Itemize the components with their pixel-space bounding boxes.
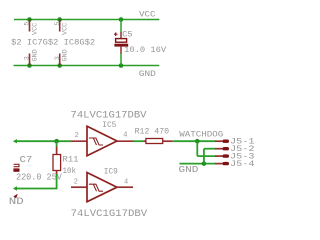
- svg-text:C7: C7: [20, 154, 33, 165]
- svg-text:3: 3: [54, 56, 61, 60]
- svg-text:GND: GND: [139, 70, 156, 79]
- svg-text:GND: GND: [179, 165, 199, 175]
- svg-text:2: 2: [74, 178, 78, 186]
- junction on GND at C5: [119, 63, 124, 68]
- wire R11 to bottom net: [14, 174, 57, 189]
- svg-text:3: 3: [24, 56, 31, 60]
- wire junction to row3: [196, 141, 198, 156]
- svg-text:2: 2: [75, 132, 79, 140]
- svg-text:WATCHDOG: WATCHDOG: [179, 130, 223, 140]
- connector pin J5-1: [215, 138, 255, 147]
- svg-text:5: 5: [24, 22, 31, 26]
- resistor R11 10k: [53, 141, 79, 176]
- connector pin J5-2: [215, 145, 255, 154]
- svg-text:J5-4: J5-4: [230, 160, 255, 169]
- net WATCHDOG wire: [173, 140, 216, 142]
- junction on GND at IC7 pin: [27, 63, 32, 68]
- svg-text:4: 4: [124, 179, 128, 187]
- IC8 power pin VCC (pin 5): [54, 20, 70, 36]
- svg-text:IC9: IC9: [104, 168, 118, 177]
- wire row4 junction to row2: [203, 149, 205, 164]
- net GND rail: [14, 65, 160, 67]
- IC7 power pin GND (pin 3): [24, 49, 40, 65]
- wire VCC to C5: [120, 20, 122, 33]
- connector pin J5-4: [215, 160, 255, 169]
- wire end arrow: [13, 139, 17, 143]
- wire end arrow bottom: [13, 186, 17, 190]
- IC8 power pin GND (pin 3): [54, 49, 70, 65]
- IC5 pin 4: [117, 140, 134, 142]
- svg-text:10.0 16V: 10.0 16V: [124, 46, 166, 55]
- svg-text:220.0 25V: 220.0 25V: [16, 172, 62, 182]
- svg-text:VCC: VCC: [62, 23, 70, 35]
- junction GND row4: [202, 161, 207, 166]
- svg-text:R11: R11: [63, 155, 79, 164]
- ground symbol bottom left: [13, 194, 17, 199]
- junction WATCHDOG: [195, 139, 200, 144]
- svg-text:C5: C5: [122, 31, 133, 40]
- op-amp U IC5 pin 2: [71, 140, 87, 142]
- wire row3: [197, 155, 215, 157]
- svg-text:R12 470: R12 470: [135, 127, 170, 136]
- svg-text:74LVC1G17DBV: 74LVC1G17DBV: [71, 109, 147, 120]
- wire row2: [204, 148, 216, 150]
- svg-text:GND: GND: [62, 49, 70, 61]
- svg-text:5: 5: [54, 22, 61, 26]
- junction on VCC at C5: [119, 17, 124, 22]
- junction on VCC at IC7 pin: [27, 17, 32, 22]
- svg-text:GND: GND: [31, 49, 39, 61]
- svg-text:10k: 10k: [63, 166, 77, 176]
- net GND wire row4: [180, 163, 216, 165]
- IC9 pin 4 (dangling): [117, 186, 133, 188]
- buffer IC9: [87, 168, 118, 202]
- svg-text:IC5: IC5: [102, 121, 116, 130]
- capacitor C5: [114, 31, 166, 55]
- resistor R12 470: [135, 127, 173, 143]
- svg-text:VCC: VCC: [139, 11, 156, 20]
- junction on GND at IC8 pin: [57, 63, 62, 68]
- wire C5 to GND: [120, 54, 122, 66]
- svg-text:$2 IC7G$2 IC8G$2: $2 IC7G$2 IC8G$2: [11, 37, 95, 47]
- junction R11 top: [54, 139, 59, 144]
- svg-text:4: 4: [123, 132, 127, 140]
- net VCC rail: [14, 19, 159, 21]
- junction on VCC at IC8 pin: [57, 17, 62, 22]
- wire input net to IC5: [14, 140, 71, 142]
- svg-text:ND: ND: [9, 196, 24, 208]
- capacitor C7: [13, 154, 62, 182]
- wire IC5 out to R12: [134, 140, 144, 142]
- IC7 power pin VCC (pin 5): [24, 20, 40, 36]
- svg-text:VCC: VCC: [31, 23, 39, 35]
- buffer IC5: [87, 121, 117, 156]
- IC9 pin 2 (dangling): [71, 186, 87, 188]
- connector pin J5-3: [215, 153, 255, 162]
- svg-text:74LVC1G17DBV: 74LVC1G17DBV: [71, 208, 148, 219]
